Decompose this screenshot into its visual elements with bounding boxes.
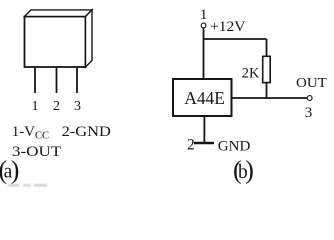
svg-text:): ) xyxy=(11,156,20,185)
wire top branch horizontal xyxy=(203,38,267,40)
svg-text:GND: GND xyxy=(218,139,251,155)
pin 3 lead xyxy=(76,67,78,93)
svg-text:+12V: +12V xyxy=(210,19,246,35)
resistor R1 2K xyxy=(263,56,271,82)
terminal node 1 xyxy=(201,23,206,28)
svg-text:2K: 2K xyxy=(242,65,260,81)
bottom watermark smudge xyxy=(8,184,47,187)
terminal node 3 OUT xyxy=(307,96,312,101)
pin 2 lead xyxy=(56,67,58,93)
svg-text:2: 2 xyxy=(187,137,195,154)
svg-text:2-GND: 2-GND xyxy=(62,124,111,140)
wire branch down to resistor xyxy=(266,39,268,57)
ground bar xyxy=(194,142,214,144)
caption (b) xyxy=(233,156,254,185)
svg-text:1-VCC: 1-VCC xyxy=(12,124,49,142)
svg-text:1: 1 xyxy=(32,99,39,114)
caption (a) xyxy=(0,156,19,185)
package U1 right face xyxy=(86,10,93,67)
svg-text:A44E: A44E xyxy=(184,88,224,108)
wire node1 to box top xyxy=(203,28,205,79)
svg-text:OUT: OUT xyxy=(296,76,327,91)
package U1 top face xyxy=(25,10,93,17)
svg-text:3: 3 xyxy=(74,99,81,114)
svg-text:1: 1 xyxy=(200,7,208,23)
wire box to OUT terminal xyxy=(232,97,308,99)
svg-text:): ) xyxy=(245,156,254,185)
svg-text:2: 2 xyxy=(53,99,60,114)
svg-text:3: 3 xyxy=(305,105,313,121)
sensor U2 A44E box xyxy=(173,79,232,116)
wire box bottom to ground xyxy=(203,116,205,143)
pin 1 lead xyxy=(34,67,36,93)
wire resistor to out line xyxy=(266,83,268,99)
package U1 front face xyxy=(25,17,86,68)
